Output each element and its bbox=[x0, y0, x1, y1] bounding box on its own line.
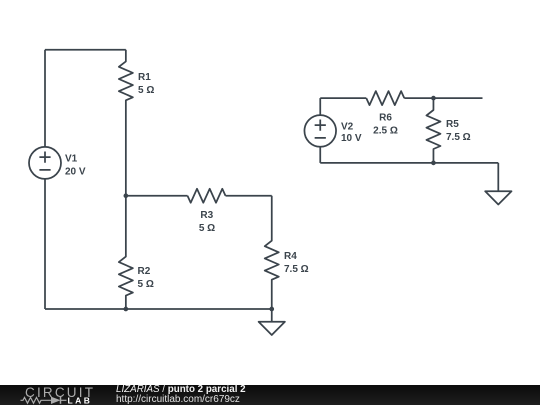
label V1 bbox=[65, 154, 86, 178]
wire top-right horizontal right bbox=[404, 97, 482, 99]
resistor R4 bbox=[265, 196, 279, 309]
junction node bottom-mid-right bbox=[431, 161, 436, 166]
resistor R3 bbox=[188, 189, 226, 203]
wire middle horizontal right bbox=[226, 195, 272, 197]
wire left branch upper bbox=[44, 50, 46, 147]
wire bottom-right horizontal bbox=[320, 162, 498, 164]
svg-text:10 V: 10 V bbox=[341, 133, 362, 144]
label R2 bbox=[138, 266, 154, 290]
resistor R2 bbox=[119, 196, 133, 309]
svg-text:2.5 Ω: 2.5 Ω bbox=[373, 126, 398, 137]
label R4 bbox=[284, 251, 309, 275]
resistor R6 bbox=[366, 91, 404, 105]
svg-text:V2: V2 bbox=[341, 122, 354, 133]
wire middle horizontal left bbox=[126, 195, 188, 197]
voltage source V2 bbox=[304, 115, 336, 147]
svg-text:R4: R4 bbox=[284, 251, 297, 262]
svg-text:20 V: 20 V bbox=[65, 167, 86, 178]
svg-text:5 Ω: 5 Ω bbox=[138, 279, 154, 290]
svg-text:V1: V1 bbox=[65, 154, 78, 165]
svg-text:R3: R3 bbox=[200, 210, 213, 221]
junction node top-right bbox=[431, 96, 436, 101]
footer url text bbox=[116, 394, 240, 405]
wire ground stub right bbox=[497, 163, 499, 191]
ground right bbox=[485, 191, 511, 204]
junction node bottom-right bbox=[269, 307, 274, 312]
wire V2 top stub bbox=[319, 98, 321, 115]
label V2 bbox=[341, 122, 362, 145]
CircuitLab logo bbox=[0, 384, 110, 405]
svg-text:LAB: LAB bbox=[68, 395, 93, 405]
svg-text:R1: R1 bbox=[138, 72, 151, 83]
resistor R5 bbox=[426, 98, 440, 163]
footer title text bbox=[116, 384, 246, 395]
wire top-right horizontal left bbox=[320, 97, 366, 99]
junction node bottom-left bbox=[124, 307, 129, 312]
svg-text:R6: R6 bbox=[379, 113, 392, 124]
svg-text:7.5 Ω: 7.5 Ω bbox=[284, 264, 309, 275]
ground left bbox=[259, 309, 285, 335]
junction node middle-left bbox=[124, 193, 129, 198]
label R1 bbox=[138, 72, 154, 96]
label R5 bbox=[446, 119, 471, 143]
svg-text:5 Ω: 5 Ω bbox=[138, 85, 154, 96]
wire left branch lower bbox=[44, 179, 46, 309]
voltage source V1 bbox=[29, 147, 61, 179]
svg-text:R2: R2 bbox=[138, 266, 151, 277]
label R3 bbox=[199, 210, 215, 234]
footer bar bbox=[0, 385, 540, 405]
wire top-left horizontal bbox=[45, 49, 126, 51]
svg-text:7.5 Ω: 7.5 Ω bbox=[446, 132, 471, 143]
svg-text:5 Ω: 5 Ω bbox=[199, 223, 215, 234]
resistor R1 bbox=[119, 50, 133, 196]
wire bottom horizontal bbox=[45, 308, 272, 310]
label R6 bbox=[373, 113, 398, 137]
svg-text:R5: R5 bbox=[446, 119, 459, 130]
wire V2 bottom stub bbox=[319, 147, 321, 163]
